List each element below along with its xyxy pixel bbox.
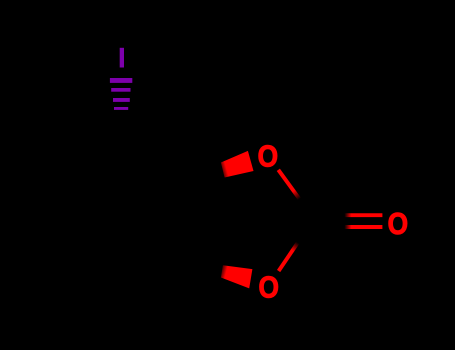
atom label O1 (top oxygen)	[258, 140, 278, 174]
svg-text:O: O	[258, 140, 278, 174]
hashed wedge bond C4-I bar 4	[114, 107, 128, 110]
bond O1-C2 (red half)	[278, 170, 299, 199]
svg-text:O: O	[259, 271, 279, 305]
bond C2-O3 (red half)	[279, 243, 298, 271]
hashed wedge bond C4-I bar 1	[110, 78, 132, 83]
atom label O (carbonyl oxygen)	[388, 207, 408, 241]
hashed wedge bond C4-I bar 3	[113, 98, 130, 102]
solid wedge bond C3a-O1 (red half)	[221, 151, 254, 178]
svg-text:O: O	[388, 207, 408, 241]
atom label O3 (bottom oxygen)	[259, 271, 279, 305]
hashed wedge bond C4-I bar 2	[111, 88, 130, 92]
solid wedge bond C7a-O3 (red half)	[221, 265, 253, 288]
atom label I (iodine)	[120, 48, 124, 68]
double bond C2=O upper line	[345, 213, 383, 217]
double bond C2=O lower line	[345, 225, 383, 229]
